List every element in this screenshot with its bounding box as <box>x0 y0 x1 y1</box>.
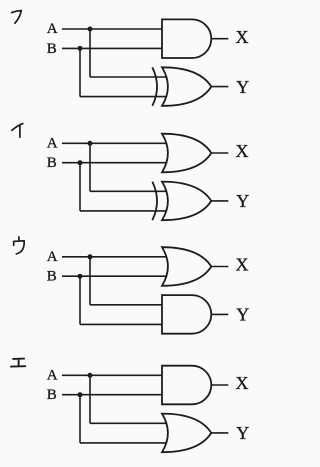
wire A to OR gate <box>62 142 168 144</box>
junction node on A <box>88 373 93 378</box>
wire X output <box>211 384 228 386</box>
svg-text:Y: Y <box>236 77 249 97</box>
wire B to OR gate <box>62 275 168 277</box>
svg-text:X: X <box>236 373 249 393</box>
svg-text:X: X <box>236 27 249 47</box>
wire B branch to OR bottom input <box>80 442 168 444</box>
wire A to AND gate <box>62 374 168 376</box>
AND gate (output X) <box>162 366 211 405</box>
wire B branch vertical <box>79 48 81 96</box>
junction node on B <box>78 160 83 165</box>
OR gate (output Y) <box>162 414 211 453</box>
XOR gate input arc <box>152 67 157 106</box>
XOR gate (output Y) <box>162 182 211 221</box>
option label ア <box>12 11 22 24</box>
wire A branch vertical <box>89 257 91 305</box>
wire B branch vertical <box>79 163 81 211</box>
wire Y output <box>211 86 228 88</box>
wire A branch vertical <box>89 29 91 77</box>
wire A branch to AND top input <box>90 304 168 306</box>
wire Y output <box>211 432 228 434</box>
XOR gate (output Y) <box>162 67 211 106</box>
svg-text:A: A <box>47 21 58 37</box>
wire B branch vertical <box>79 276 81 324</box>
OR gate (output X) <box>162 134 211 173</box>
wire A to AND gate <box>62 28 168 30</box>
svg-text:A: A <box>47 249 58 265</box>
wire B to AND gate <box>62 47 168 49</box>
option label イ <box>12 124 23 138</box>
wire A branch vertical <box>89 143 91 191</box>
wire B branch vertical <box>79 395 81 443</box>
junction node on A <box>88 141 93 146</box>
wire B to AND gate <box>62 394 168 396</box>
wire B to OR gate <box>62 162 168 164</box>
svg-text:A: A <box>47 367 58 383</box>
junction node on A <box>88 254 93 259</box>
option label ウ <box>14 237 25 254</box>
wire A to OR gate <box>62 256 168 258</box>
svg-text:Y: Y <box>236 305 249 325</box>
wire Y output <box>211 200 228 202</box>
svg-text:B: B <box>47 387 57 403</box>
svg-text:X: X <box>236 255 249 275</box>
junction node on B <box>78 274 83 279</box>
wire B branch to XOR bottom input <box>80 210 168 212</box>
svg-text:X: X <box>236 141 249 161</box>
svg-text:B: B <box>47 269 57 285</box>
wire A branch to XOR top input <box>90 190 168 192</box>
wire A branch to OR top input <box>90 422 168 424</box>
svg-text:A: A <box>47 135 58 151</box>
option label エ <box>11 359 25 367</box>
svg-text:Y: Y <box>236 423 249 443</box>
junction node on A <box>88 27 93 32</box>
wire X output <box>211 266 228 268</box>
wire B branch to XOR bottom input <box>80 96 168 98</box>
XOR gate input arc <box>152 182 157 221</box>
svg-text:Y: Y <box>236 191 249 211</box>
wire Y output <box>211 313 228 315</box>
junction node on B <box>78 46 83 51</box>
junction node on B <box>78 392 83 397</box>
wire A branch vertical <box>89 375 91 423</box>
wire A branch to XOR top input <box>90 76 168 78</box>
AND gate (output X) <box>162 19 211 58</box>
wire B branch to AND bottom input <box>80 323 168 325</box>
svg-text:B: B <box>47 155 57 171</box>
OR gate (output X) <box>162 247 211 286</box>
wire X output <box>211 152 228 154</box>
wire X output <box>211 38 228 40</box>
svg-text:B: B <box>47 41 57 57</box>
AND gate (output Y) <box>162 295 211 334</box>
